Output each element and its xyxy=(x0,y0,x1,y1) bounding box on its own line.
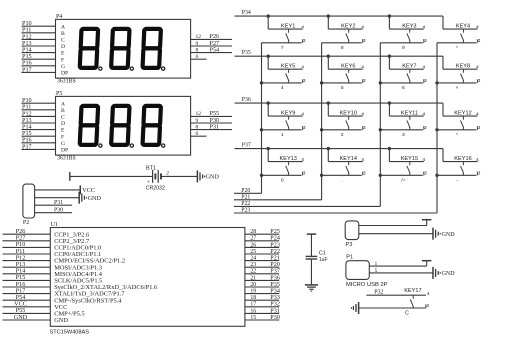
svg-text:16: 16 xyxy=(250,308,256,314)
wire column net P23 xyxy=(234,212,437,214)
svg-text:6: 6 xyxy=(196,54,199,60)
svg-text:2: 2 xyxy=(166,170,169,176)
svg-text:VCC: VCC xyxy=(82,187,95,194)
svg-text:4: 4 xyxy=(476,65,479,71)
svg-text:KEY11: KEY11 xyxy=(401,110,418,116)
svg-text:B: B xyxy=(61,31,65,37)
wire P14 to P5 pin E xyxy=(22,129,56,131)
svg-text:STC15W408AS: STC15W408AS xyxy=(50,330,90,336)
svg-text:.: . xyxy=(342,179,343,184)
svg-text:3: 3 xyxy=(478,125,481,131)
svg-text:8: 8 xyxy=(196,124,199,130)
wire U1 left pin 1 net P26 xyxy=(3,233,51,235)
svg-text:KEY2: KEY2 xyxy=(341,23,355,29)
svg-text:KEY9: KEY9 xyxy=(281,110,295,116)
wire P5 pin 9 net P30 xyxy=(191,122,232,124)
svg-text:P17: P17 xyxy=(22,66,32,73)
pushbutton KEY8 xyxy=(437,64,481,92)
svg-text:3: 3 xyxy=(303,170,306,176)
svg-text:4: 4 xyxy=(476,112,479,118)
wire P1 pin 1 xyxy=(369,265,426,267)
svg-text:22: 22 xyxy=(250,269,256,275)
svg-text:U1: U1 xyxy=(51,222,58,228)
svg-text:4: 4 xyxy=(361,25,364,31)
svg-text:P2: P2 xyxy=(23,220,29,226)
decimal point xyxy=(99,67,102,70)
wire P12 to P5 pin C xyxy=(22,115,56,117)
svg-text:P5: P5 xyxy=(56,91,62,97)
svg-text:D: D xyxy=(61,121,65,127)
wire U1 right pin 25 net P22 xyxy=(245,253,279,255)
pushbutton KEY5 xyxy=(262,55,306,92)
power bar (P1) xyxy=(426,261,428,266)
wire P2 pin4 net P30 xyxy=(35,212,73,214)
svg-text:3: 3 xyxy=(363,125,366,131)
svg-text:GND: GND xyxy=(88,195,102,202)
svg-text:DP: DP xyxy=(61,148,68,154)
svg-text:P36: P36 xyxy=(242,97,251,103)
svg-text:P35: P35 xyxy=(242,50,251,56)
ground GND (P2) xyxy=(79,192,101,204)
svg-text:7: 7 xyxy=(281,45,284,51)
svg-text:P23: P23 xyxy=(241,208,250,214)
wire P17 to P4 pin DP xyxy=(22,71,56,73)
svg-text:9: 9 xyxy=(196,41,199,47)
decimal point xyxy=(130,144,133,147)
wire U1 left pin 6 net P13 xyxy=(3,266,51,268)
junction column 4 row 3 xyxy=(435,128,438,131)
svg-text:MICRO USB 2P: MICRO USB 2P xyxy=(346,282,388,288)
svg-text:P21: P21 xyxy=(241,194,250,200)
wire battery to GND xyxy=(161,175,197,177)
wire U1 right pin 22 net P37 xyxy=(245,273,279,275)
svg-text:KEY16: KEY16 xyxy=(454,156,471,162)
wire U1 right pin 19 net P34 xyxy=(245,293,279,295)
svg-text:12: 12 xyxy=(196,34,202,40)
svg-text:DP: DP xyxy=(61,71,68,77)
junction column 1 row 4 xyxy=(260,174,263,177)
7-segment display P5 3631BS xyxy=(56,91,191,162)
earth ground (C1) xyxy=(305,285,318,291)
digit 8 xyxy=(143,29,161,68)
digit 8 xyxy=(111,29,129,68)
power bar (P3) xyxy=(426,220,428,226)
svg-text:P17: P17 xyxy=(22,143,32,150)
wire keypad column 3 xyxy=(379,43,381,207)
wire U1 right pin 27 net P24 xyxy=(245,240,279,242)
wire column net P21 xyxy=(234,199,322,201)
svg-text:1: 1 xyxy=(375,261,378,267)
svg-text:4: 4 xyxy=(422,25,425,31)
svg-text:1: 1 xyxy=(281,132,284,138)
svg-text:4: 4 xyxy=(361,65,364,71)
svg-text:9: 9 xyxy=(402,45,405,51)
wire KEY17 top net P32 xyxy=(366,294,426,296)
svg-text:3: 3 xyxy=(303,125,306,131)
pushbutton KEY11 xyxy=(380,101,427,138)
connector P1 MICRO USB 2P xyxy=(346,254,388,288)
wire P14 to P4 pin E xyxy=(22,52,56,54)
wire U1 left pin 9 net P16 xyxy=(3,286,51,288)
wire P10 to P5 pin A xyxy=(22,102,56,104)
wire P17 to P5 pin DP xyxy=(22,148,56,150)
junction column 1 row 2 xyxy=(260,81,263,84)
wire U1 left pin 14 net GND xyxy=(3,319,51,321)
svg-text:KEY8: KEY8 xyxy=(456,64,470,70)
wire P15 to P4 pin F xyxy=(22,58,56,60)
pushbutton KEY14 xyxy=(322,147,366,184)
svg-text:KEY1: KEY1 xyxy=(281,23,295,29)
wire column net P20 xyxy=(234,192,262,194)
svg-text:4: 4 xyxy=(281,85,284,91)
svg-text:KEY5: KEY5 xyxy=(281,64,295,70)
wire row bend into KEY8 xyxy=(442,56,444,69)
svg-text:C: C xyxy=(61,115,65,121)
pushbutton KEY2 xyxy=(322,14,366,51)
svg-text:P32: P32 xyxy=(374,290,383,296)
wire P11 to P5 pin B xyxy=(22,109,56,111)
svg-text:26: 26 xyxy=(250,242,256,248)
svg-text:3: 3 xyxy=(424,78,427,84)
junction column 4 row 4 xyxy=(435,174,438,177)
pushbutton KEY15 xyxy=(380,147,427,184)
pushbutton KEY12 xyxy=(437,110,481,138)
svg-text:12: 12 xyxy=(196,111,202,117)
svg-text:4: 4 xyxy=(301,25,304,31)
svg-text:4: 4 xyxy=(427,291,430,297)
wire U1 right pin 16 net P31 xyxy=(245,312,279,314)
wire KEY17 bottom to ground xyxy=(359,307,426,309)
wire row bend into KEY16 xyxy=(442,149,444,162)
junction column 2 row 4 xyxy=(320,174,323,177)
svg-text:E: E xyxy=(61,51,65,57)
svg-text:3: 3 xyxy=(363,170,366,176)
wire P1 pin 5 to GND xyxy=(369,272,433,274)
junction column 4 row 2 xyxy=(435,81,438,84)
wire row net P34 xyxy=(235,15,444,17)
wire row net P36 xyxy=(235,102,444,104)
svg-text:GND: GND xyxy=(442,271,456,277)
battery BT1 CR2032 xyxy=(70,165,170,191)
svg-text:P20: P20 xyxy=(241,188,250,194)
ground GND (P3) xyxy=(433,228,455,240)
svg-text:1uF: 1uF xyxy=(319,257,328,263)
wire P5 pin 6 stub xyxy=(191,135,207,137)
junction column 1 row 3 xyxy=(260,128,263,131)
wire U1 right pin 24 net P21 xyxy=(245,260,279,262)
junction column 3 row 4 xyxy=(379,174,382,177)
svg-text:3631BS: 3631BS xyxy=(57,156,76,162)
svg-text:*: * xyxy=(456,132,458,138)
pushbutton KEY16 xyxy=(437,156,481,184)
wire P3 pin2 to GND xyxy=(359,233,433,235)
svg-text:4: 4 xyxy=(476,25,479,31)
wire keypad column 1 xyxy=(261,43,263,194)
wire U1 left pin 8 net P15 xyxy=(3,279,51,281)
svg-text:4: 4 xyxy=(361,112,364,118)
svg-text:3: 3 xyxy=(478,170,481,176)
svg-text:E: E xyxy=(61,128,65,134)
svg-text:GND: GND xyxy=(442,232,456,238)
junction column 2 row 3 xyxy=(320,128,323,131)
svg-text:KEY15: KEY15 xyxy=(401,156,418,162)
wire P11 to P4 pin B xyxy=(22,32,56,34)
wire P15 to P5 pin F xyxy=(22,135,56,137)
connector P3 xyxy=(345,221,359,248)
svg-text:3631BS: 3631BS xyxy=(57,79,76,85)
svg-text:5: 5 xyxy=(375,268,378,274)
wire U1 left pin 7 net P14 xyxy=(3,273,51,275)
svg-text:9: 9 xyxy=(196,118,199,124)
pushbutton KEY3 xyxy=(380,14,427,51)
pushbutton KEY13 xyxy=(262,147,306,184)
svg-text:KEY7: KEY7 xyxy=(402,64,416,70)
svg-text:3: 3 xyxy=(478,78,481,84)
wire U1 right pin 26 net P23 xyxy=(245,246,279,248)
svg-text:4: 4 xyxy=(422,112,425,118)
wire U1 left pin 5 net P12 xyxy=(3,260,51,262)
power bar (C1 top) xyxy=(310,234,312,256)
junction column 3 row 2 xyxy=(379,81,382,84)
svg-text:3: 3 xyxy=(363,78,366,84)
wire U1 left pin 3 net P10 xyxy=(3,246,51,248)
svg-text:28: 28 xyxy=(250,229,256,235)
wire row bend into KEY4 xyxy=(442,16,444,29)
svg-text:3: 3 xyxy=(363,38,366,44)
svg-text:P4: P4 xyxy=(56,14,62,20)
svg-text:3: 3 xyxy=(402,132,405,138)
svg-text:3: 3 xyxy=(424,125,427,131)
wire C1 to ground xyxy=(310,259,312,285)
svg-text:4: 4 xyxy=(301,65,304,71)
svg-text:KEY6: KEY6 xyxy=(341,64,355,70)
svg-text:GND: GND xyxy=(206,174,220,181)
pushbutton KEY7 xyxy=(380,55,427,92)
svg-text:2: 2 xyxy=(341,132,344,138)
connector P2 xyxy=(23,184,35,226)
wire U1 left pin 11 net P54 xyxy=(3,299,51,301)
svg-text:4: 4 xyxy=(422,157,425,163)
svg-text:4: 4 xyxy=(361,157,364,163)
svg-text:17: 17 xyxy=(250,302,256,308)
decimal point xyxy=(99,144,102,147)
svg-text:P31: P31 xyxy=(210,123,220,130)
wire U1 left pin 13 net P55 xyxy=(3,312,51,314)
digit 8 xyxy=(143,106,161,145)
svg-text:P30: P30 xyxy=(270,314,280,321)
svg-text:P22: P22 xyxy=(241,201,250,207)
svg-text:25: 25 xyxy=(250,249,256,255)
svg-text:KEY10: KEY10 xyxy=(340,110,357,116)
pushbutton KEY1 xyxy=(262,14,306,51)
ground GND (battery) xyxy=(197,170,219,182)
ground (KEY17) xyxy=(358,302,360,314)
capacitor C1 1uF xyxy=(306,251,328,263)
svg-text:KEY13: KEY13 xyxy=(279,156,296,162)
svg-text:/=: /= xyxy=(401,178,405,184)
svg-text:P1: P1 xyxy=(346,254,353,260)
wire P10 to P4 pin A xyxy=(22,25,56,27)
digit 8 xyxy=(111,106,129,145)
wire P13 to P4 pin D xyxy=(22,45,56,47)
wire P16 to P4 pin G xyxy=(22,65,56,67)
svg-text:BT1: BT1 xyxy=(146,165,156,171)
wire P4 pin 8 net P54 xyxy=(191,52,232,54)
svg-text:A: A xyxy=(61,24,65,30)
decimal point xyxy=(162,144,165,147)
svg-text:21: 21 xyxy=(250,275,256,281)
svg-text:8: 8 xyxy=(196,47,199,53)
svg-text:3: 3 xyxy=(424,38,427,44)
wire P4 pin 9 net P27 xyxy=(191,45,232,47)
wire row net P35 xyxy=(235,55,444,57)
junction column 2 row 2 xyxy=(320,81,323,84)
IC U1 STC15W408AS xyxy=(50,222,245,336)
svg-text:0: 0 xyxy=(281,178,284,184)
wire U1 right pin 21 net P36 xyxy=(245,279,279,281)
svg-text:15: 15 xyxy=(250,315,256,321)
svg-text:F: F xyxy=(61,57,64,63)
svg-text:KEY12: KEY12 xyxy=(454,110,471,116)
svg-text:P37: P37 xyxy=(242,142,251,148)
svg-text:C1: C1 xyxy=(319,251,326,257)
svg-text:5: 5 xyxy=(341,85,344,91)
svg-text:3: 3 xyxy=(303,78,306,84)
wire P2 pin3 net P31 xyxy=(35,204,73,206)
svg-text:B: B xyxy=(61,108,65,114)
decimal point xyxy=(162,67,165,70)
wire P16 to P5 pin G xyxy=(22,142,56,144)
svg-text:*: * xyxy=(456,45,458,51)
wire P2 pin1 to VCC xyxy=(35,189,81,191)
svg-text:3: 3 xyxy=(303,38,306,44)
wire row net P37 xyxy=(235,148,444,150)
svg-text:19: 19 xyxy=(250,289,256,295)
svg-text:KEY14: KEY14 xyxy=(340,156,357,162)
svg-text:4: 4 xyxy=(301,157,304,163)
wire row bend into KEY12 xyxy=(442,103,444,116)
svg-text:C: C xyxy=(61,38,65,44)
pushbutton KEY17 xyxy=(404,288,430,316)
svg-text:P30: P30 xyxy=(54,208,63,214)
svg-text:×: × xyxy=(456,85,459,91)
wire P12 to P4 pin C xyxy=(22,38,56,40)
svg-text:P54: P54 xyxy=(210,46,220,53)
wire U1 right pin 20 net P35 xyxy=(245,286,279,288)
svg-text:P34: P34 xyxy=(242,10,251,16)
pushbutton KEY6 xyxy=(322,55,366,92)
svg-text:KEY17: KEY17 xyxy=(404,288,421,294)
7-segment display P4 3631BS xyxy=(56,14,191,85)
pushbutton KEY4 xyxy=(437,23,481,51)
svg-text:4: 4 xyxy=(301,112,304,118)
digit 8 xyxy=(80,29,98,68)
power port VCC xyxy=(80,185,95,194)
svg-text:G: G xyxy=(61,141,65,147)
wire P13 to P5 pin D xyxy=(22,122,56,124)
wire U1 left pin 4 net P11 xyxy=(3,253,51,255)
wire U1 left pin 12 net VCC xyxy=(3,306,51,308)
svg-text:D: D xyxy=(61,44,65,50)
wire P2 pin2 to GND xyxy=(35,197,80,199)
svg-text:20: 20 xyxy=(250,282,256,288)
svg-text:18: 18 xyxy=(250,295,256,301)
pushbutton KEY9 xyxy=(262,101,306,138)
wire column net P22 xyxy=(234,205,380,207)
wire P4 pin 6 stub xyxy=(191,58,207,60)
wire U1 right pin 28 net P25 xyxy=(245,233,279,235)
pushbutton KEY10 xyxy=(322,101,366,138)
svg-text:24: 24 xyxy=(250,256,256,262)
ground GND (P1) xyxy=(433,267,455,279)
svg-text:P31: P31 xyxy=(54,200,63,206)
svg-text:KEY4: KEY4 xyxy=(456,23,470,29)
wire keypad column 4 xyxy=(436,43,438,213)
wire U1 left pin 2 net P27 xyxy=(3,240,51,242)
svg-text:4: 4 xyxy=(476,157,479,163)
wire P3 pin1 xyxy=(359,225,427,227)
wire P4 pin 12 net P26 xyxy=(191,38,232,40)
wire U1 right pin 15 net P30 xyxy=(245,319,279,321)
svg-text:8: 8 xyxy=(341,45,344,51)
svg-text:27: 27 xyxy=(250,236,256,242)
svg-text:3: 3 xyxy=(424,170,427,176)
decimal point xyxy=(130,67,133,70)
svg-text:3: 3 xyxy=(426,303,429,309)
svg-text:4: 4 xyxy=(422,65,425,71)
svg-text:6: 6 xyxy=(196,131,199,137)
wire keypad column 2 xyxy=(321,43,323,200)
svg-text:CR2032: CR2032 xyxy=(146,185,165,191)
wire P5 pin 8 net P31 xyxy=(191,129,232,131)
svg-text:23: 23 xyxy=(250,262,256,268)
junction column 3 row 3 xyxy=(379,128,382,131)
wire U1 left pin 10 net P17 xyxy=(3,293,51,295)
wire U1 right pin 23 net P20 xyxy=(245,266,279,268)
svg-text:G: G xyxy=(61,64,65,70)
svg-text:3: 3 xyxy=(478,38,481,44)
svg-text:GND: GND xyxy=(14,314,28,321)
digit 8 xyxy=(80,106,98,145)
svg-text:C: C xyxy=(405,311,409,317)
svg-text:F: F xyxy=(61,134,64,140)
wire P5 pin 12 net P55 xyxy=(191,115,232,117)
wire U1 right pin 18 net P33 xyxy=(245,299,279,301)
svg-text:P3: P3 xyxy=(346,242,353,248)
svg-text:6: 6 xyxy=(402,85,405,91)
wire U1 right pin 17 net P32 xyxy=(245,306,279,308)
svg-text:GND: GND xyxy=(54,317,68,324)
svg-text:A: A xyxy=(61,101,65,107)
svg-text:KEY3: KEY3 xyxy=(402,23,416,29)
